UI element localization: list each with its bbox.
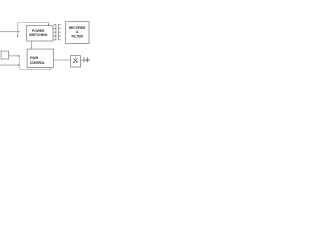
wire power-to-pwm xyxy=(31,41,33,49)
optocoupler LED symbol xyxy=(73,57,77,63)
wire opto-out xyxy=(81,59,84,61)
wire sense1 xyxy=(9,55,19,57)
svg-text:SWITCHING: SWITCHING xyxy=(29,33,48,37)
arrowhead down bus stub xyxy=(17,36,19,38)
arrowhead down into power box xyxy=(48,24,50,26)
capacitor plate 2 xyxy=(86,57,88,62)
wire AC input xyxy=(0,31,18,33)
wire pwm-to-opto xyxy=(54,59,71,61)
transformer T1 xyxy=(54,24,61,40)
arrowhead up into pwm bottom xyxy=(49,68,51,70)
wire top route xyxy=(18,23,49,25)
block power switching xyxy=(27,26,53,41)
block pwm control xyxy=(27,49,53,67)
block optocoupler xyxy=(71,56,81,67)
svg-text:PWM: PWM xyxy=(30,56,39,60)
svg-text:CONTROL: CONTROL xyxy=(30,61,45,65)
block rectifier filter xyxy=(66,22,89,44)
arrowhead right sense2 xyxy=(18,64,20,66)
capacitor plate 1 xyxy=(83,57,85,62)
arrowhead down into pwm box xyxy=(31,47,33,49)
wire output xyxy=(85,59,89,61)
wire top bus vertical xyxy=(17,23,19,37)
arrowhead right sense1 xyxy=(18,55,20,57)
wire sense2 xyxy=(0,64,18,66)
wire bottom bus xyxy=(20,56,51,70)
block sense (small left box) xyxy=(1,51,8,59)
arrowhead right input into bus xyxy=(18,31,20,33)
svg-text:FILTER: FILTER xyxy=(71,35,83,39)
